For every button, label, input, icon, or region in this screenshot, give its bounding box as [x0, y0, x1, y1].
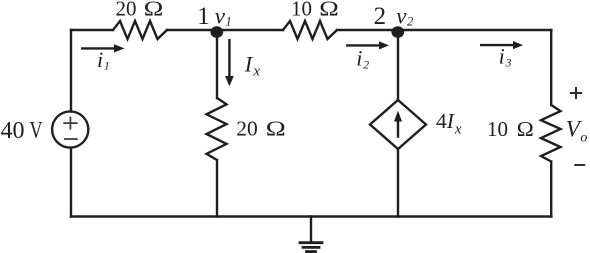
svg-text:Ω: Ω	[319, 0, 339, 21]
svg-text:10: 10	[487, 117, 508, 141]
svg-text:10: 10	[291, 0, 312, 21]
svg-text:Ω: Ω	[517, 117, 534, 141]
svg-text:2: 2	[374, 3, 387, 30]
svg-text:1: 1	[197, 3, 210, 30]
svg-text:V: V	[30, 117, 44, 144]
svg-text:40: 40	[1, 118, 25, 144]
svg-text:Ω: Ω	[144, 0, 164, 21]
svg-text:Ω: Ω	[266, 117, 286, 141]
svg-text:20: 20	[116, 0, 137, 21]
svg-text:20: 20	[236, 117, 257, 141]
